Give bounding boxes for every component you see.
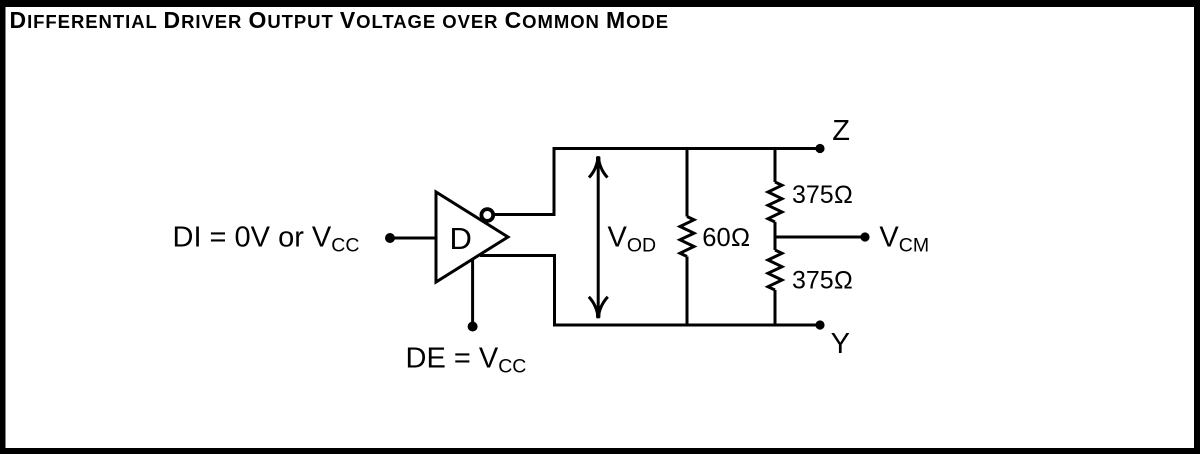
- svg-text:Y: Y: [831, 328, 850, 360]
- inversion bubble: [481, 209, 493, 221]
- svg-text:375Ω: 375Ω: [792, 267, 853, 295]
- node Y: [815, 320, 824, 329]
- node VCM: [860, 232, 869, 241]
- svg-text:D: D: [450, 221, 472, 256]
- resistor 375 ohm upper: [768, 149, 782, 238]
- wire bottom rail (Y net): [553, 324, 820, 327]
- svg-text:DIFFERENTIAL DRIVER OUTPUT VOL: DIFFERENTIAL DRIVER OUTPUT VOLTAGE OVER …: [10, 7, 670, 33]
- svg-text:Z: Z: [832, 115, 850, 147]
- resistor 375 ohm lower: [768, 237, 782, 325]
- svg-text:375Ω: 375Ω: [792, 181, 853, 209]
- wire DE enable: [471, 260, 474, 327]
- frame border (decorative): [0, 0, 1200, 7]
- resistor 60 ohm: [680, 149, 694, 326]
- wire top rail (Z net): [553, 147, 821, 150]
- wire Y output (triangle to bottom rail): [480, 256, 555, 326]
- wire Z output (bubble to top rail): [495, 150, 555, 215]
- node DE dot: [468, 322, 478, 332]
- node DI input dot: [385, 233, 395, 243]
- driver D triangle: [436, 192, 508, 282]
- wire VCM tap: [775, 236, 865, 239]
- VOD measurement arrow: [589, 156, 608, 318]
- node Z: [815, 144, 824, 153]
- svg-text:60Ω: 60Ω: [702, 224, 750, 252]
- wire DI input: [390, 237, 436, 240]
